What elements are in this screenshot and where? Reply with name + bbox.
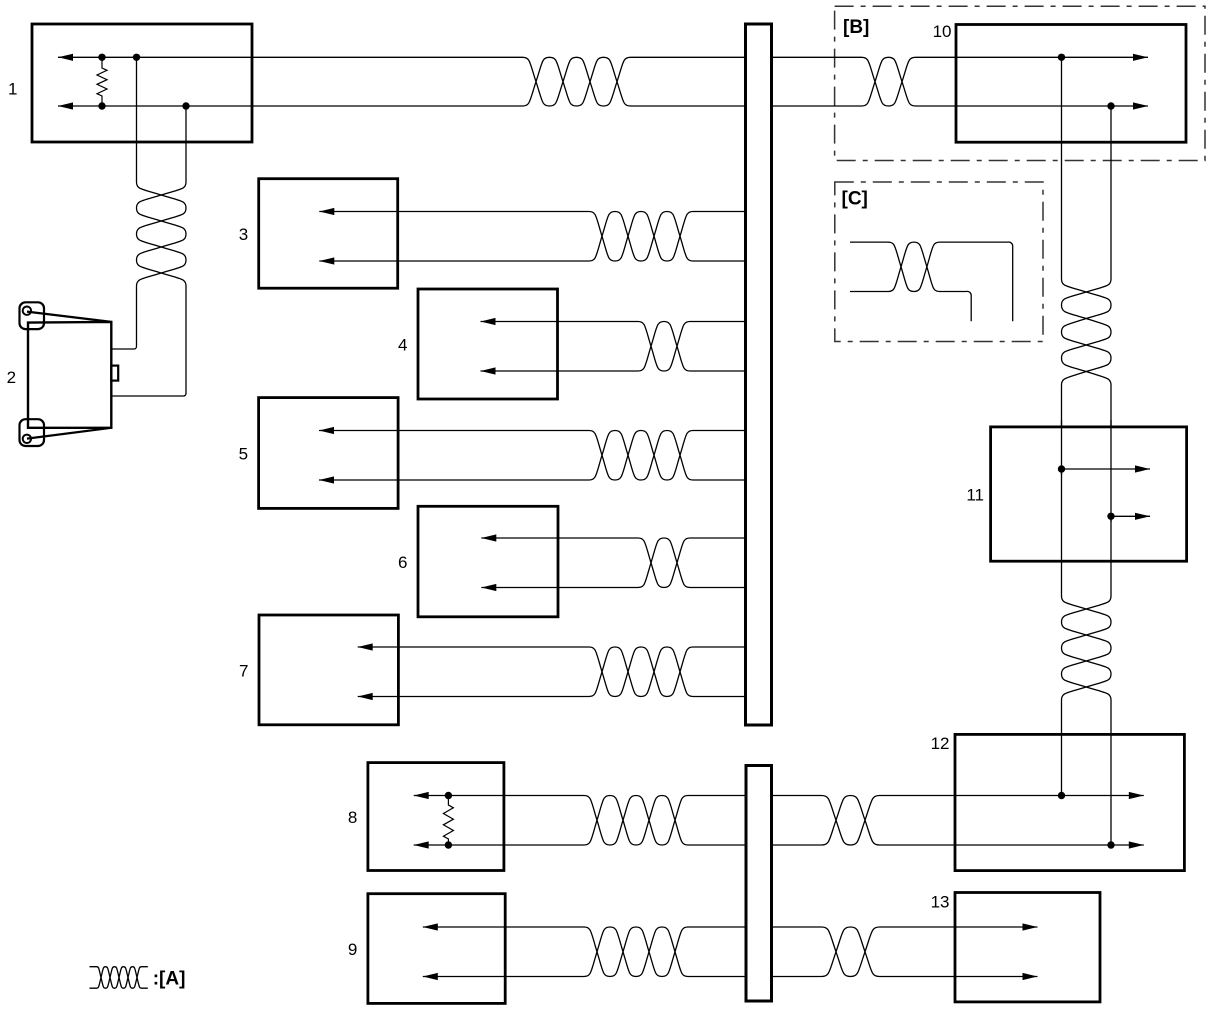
box 11 [991,427,1187,561]
junction box10 top [1058,54,1065,61]
box 13 [955,893,1100,1002]
box 3 [259,179,398,289]
wire row8 top bus2 to box12 [772,796,1144,846]
wire box11 to box12 right [1062,516,1112,845]
wire row5 top to bus [319,431,745,481]
arrow box4 bottom [481,367,496,374]
svg-text:9: 9 [348,940,357,959]
junction box8 top [445,792,452,799]
[C] sample twisted pair wire top [850,242,1013,321]
junction box12 bottom [1107,841,1114,848]
wire row6 bottom to bus [481,538,745,588]
arrow box13 bottom [1023,973,1038,980]
arrow box1 bottom [58,102,73,109]
arrow box13 top [1023,923,1038,930]
svg-text:10: 10 [933,22,952,41]
junction box8 bottom [445,841,452,848]
arrow box6 top [481,534,496,541]
wire row4 top to bus [481,322,746,372]
wire box10 to box11 left [1062,57,1112,427]
wire box11 to box12 left [1062,469,1112,796]
svg-text:11: 11 [966,486,984,505]
wire row4 bottom to bus [481,322,746,372]
box 2 top bevel line [27,312,111,322]
wire row5 bottom to bus [319,431,745,481]
arrow box5 bottom [319,476,334,483]
arrow box4 top [481,318,496,325]
arrow box12 top [1129,792,1144,799]
bus bar junction connector 1 [746,24,772,725]
junction box11 top [1058,465,1065,472]
arrow box12 bottom [1129,841,1144,848]
arrow box7 top [358,643,373,650]
wire row8 bottom bus2 to box12 [772,796,1144,846]
arrow box10 bottom [1133,102,1148,109]
box 12 [955,734,1184,870]
box 1 [32,24,252,142]
svg-text:2: 2 [7,368,16,387]
box 7 [259,615,398,725]
svg-text:12: 12 [931,734,950,753]
wire row1 CAN-H box1 to bus [58,57,745,106]
[C] sample twisted pair wire bottom [850,242,971,321]
legend twisted-pair symbol wire A [90,967,148,989]
junction box1 L-branch [182,102,189,109]
arrow box9 top [423,923,438,930]
svg-text:3: 3 [239,225,248,244]
svg-text:[C]: [C] [842,189,868,210]
svg-text::[A]: :[A] [153,969,186,990]
wire row6 top to bus [481,538,745,588]
arrow box11 bottom [1135,513,1150,520]
arrow box3 bottom [319,257,334,264]
wire row1 CAN-H bus to box10 [772,57,1148,106]
arrow box10 top [1133,54,1148,61]
arrow box1 top [58,54,73,61]
dash-dot frame [C] [835,182,1043,342]
wire row7 top to bus [358,647,745,697]
resistor in box 1 [97,57,107,106]
svg-text:1: 1 [8,80,17,99]
arrow box5 top [319,427,334,434]
wire box11 branch L [1111,515,1150,517]
wire row3 top to bus [319,212,745,262]
wire row9 top bus2 to box13 [772,927,1038,977]
box 6 [418,506,558,617]
wire row7 bottom to bus [358,647,745,697]
svg-text:4: 4 [398,336,407,355]
box 2 side nub [111,366,118,381]
arrow box7 bottom [358,693,373,700]
arrow box3 top [319,208,334,215]
wire row3 bottom to bus [319,212,745,262]
box 5 [259,398,399,509]
box 2 top tab hole [23,307,31,315]
box 10 [956,25,1186,143]
arrow box8 bottom [414,841,429,848]
junction box1 H-branch [133,54,140,61]
junction box10 bottom [1107,102,1114,109]
svg-text:[B]: [B] [843,17,869,38]
svg-text:8: 8 [348,808,357,827]
svg-text:7: 7 [239,661,248,680]
wire row8 top box8 to bus2 [414,796,746,846]
wire through box11 left [1061,420,1063,475]
box 2 connector body [28,322,111,428]
wire box1 to box2 left [112,57,187,349]
box 2 top mounting tab [20,302,45,329]
junction box1 L-res [98,102,105,109]
arrow box6 bottom [481,584,496,591]
junction box1 H-res [98,54,105,61]
arrow box9 bottom [423,973,438,980]
wire row9 bottom box9 to bus2 [423,927,746,977]
wire box1 to box2 right [112,106,187,396]
resistor in box 8 [443,796,453,846]
box 9 [368,894,505,1004]
wire row8 bottom box8 to bus2 [414,796,746,846]
wire row1 CAN-L bus to box10 [772,57,1148,106]
wire through box11 right [1110,420,1112,522]
bus bar junction connector 2 [746,766,772,1002]
box 2 bottom mounting tab [20,419,45,446]
wire row1 CAN-L box1 to bus [58,57,745,106]
box 4 [418,289,558,399]
junction box11 bottom [1107,513,1114,520]
svg-text:13: 13 [931,893,950,912]
svg-text:5: 5 [239,445,248,464]
arrow box8 top [414,792,429,799]
wire row9 bottom bus2 to box13 [772,927,1038,977]
box 2 bottom tab hole [23,435,31,443]
box 2 bottom bevel line [27,428,111,439]
box 8 [368,763,504,871]
junction box12 top [1058,792,1065,799]
wire row9 top box9 to bus2 [423,927,746,977]
svg-text:6: 6 [398,553,407,572]
legend twisted-pair symbol wire B [90,967,148,989]
wire box10 to box11 right [1062,106,1112,427]
wire box11 branch H [1062,468,1151,470]
arrow box11 top [1135,465,1150,472]
dash-dot frame [B] [835,6,1205,160]
